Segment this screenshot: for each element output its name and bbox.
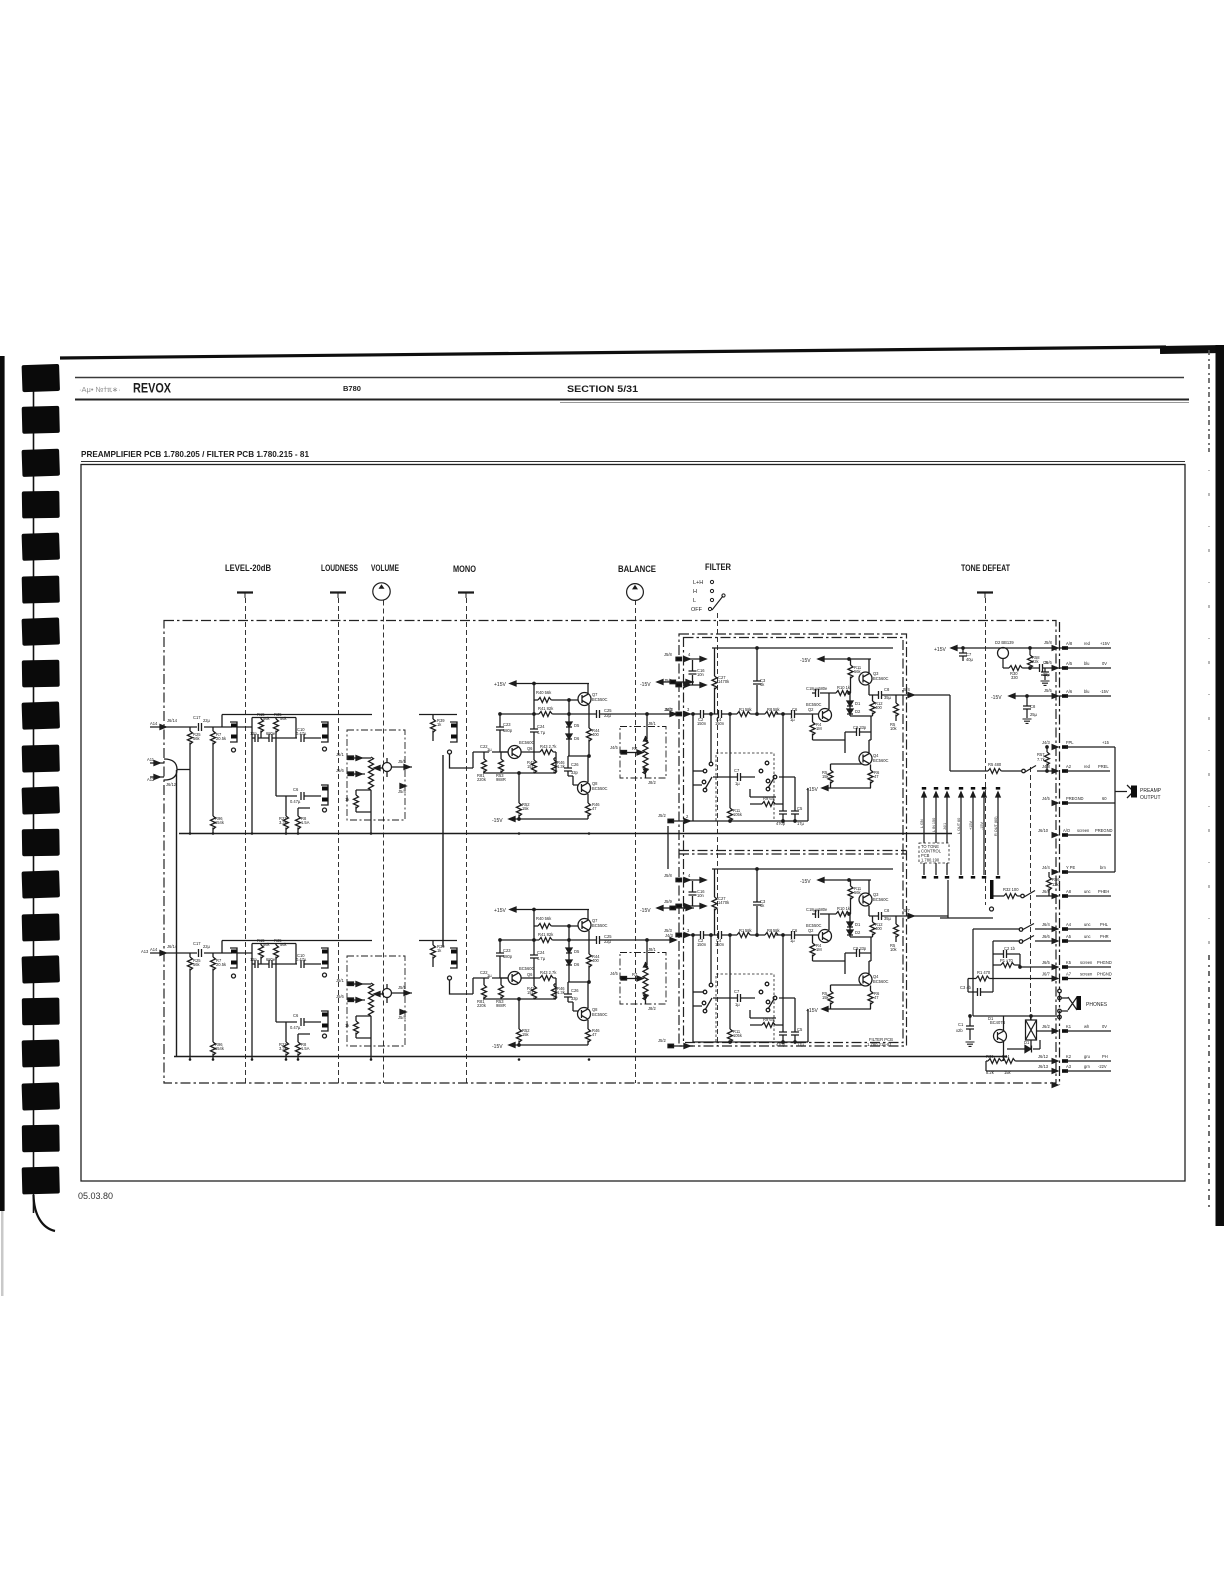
- svg-text:screen: screen: [1080, 960, 1093, 965]
- svg-text:PHGND: PHGND: [1097, 960, 1112, 965]
- svg-text:OFF: OFF: [691, 607, 703, 613]
- svg-text:A/5: A/5: [1066, 661, 1073, 666]
- svg-text:+15V: +15V: [494, 682, 506, 688]
- svg-text:150n: 150n: [697, 721, 707, 726]
- svg-text:MONO: MONO: [453, 564, 476, 575]
- svg-text:-15V: -15V: [991, 695, 1002, 701]
- svg-text:SECTION 5/31: SECTION 5/31: [567, 384, 638, 394]
- svg-text:PHR: PHR: [1100, 934, 1109, 939]
- svg-text:A12: A12: [147, 777, 155, 782]
- svg-text:R32 100: R32 100: [1003, 887, 1019, 892]
- svg-text:-15V: -15V: [492, 818, 503, 824]
- svg-text:+15V: +15V: [1100, 641, 1110, 646]
- svg-text:35µ: 35µ: [884, 695, 892, 700]
- svg-text:LOUDNESS: LOUDNESS: [321, 563, 358, 574]
- svg-text:D2: D2: [855, 709, 861, 714]
- svg-text:BC550C: BC550C: [592, 697, 608, 702]
- svg-text:C7: C7: [734, 768, 740, 773]
- svg-text:red: red: [1084, 641, 1091, 646]
- svg-text:BC560C: BC560C: [873, 676, 889, 681]
- svg-text:R10 1k: R10 1k: [837, 685, 851, 690]
- svg-text:J5/8: J5/8: [664, 652, 672, 657]
- svg-text:A4: A4: [1066, 922, 1072, 927]
- svg-text:Q6: Q6: [527, 746, 533, 751]
- svg-text:BC560C: BC560C: [873, 758, 889, 763]
- svg-text:A3: A3: [1066, 1064, 1072, 1069]
- svg-text:A/O: A/O: [1063, 828, 1070, 833]
- svg-text:L: L: [693, 598, 696, 604]
- svg-text:+15V: +15V: [934, 647, 946, 653]
- svg-text:+15: +15: [1102, 740, 1110, 745]
- svg-text:blu: blu: [1084, 661, 1089, 666]
- svg-text:4: 4: [688, 652, 691, 657]
- svg-text:PREGND: PREGND: [1095, 828, 1113, 833]
- svg-text:grn: grn: [1084, 1064, 1091, 1069]
- svg-text:56k: 56k: [280, 716, 288, 721]
- svg-text:J5/2: J5/2: [658, 813, 666, 818]
- svg-text:C5: C5: [797, 806, 803, 811]
- svg-text:brn: brn: [1100, 865, 1107, 870]
- svg-text:1µ: 1µ: [487, 747, 492, 752]
- svg-text:R5 480: R5 480: [988, 762, 1002, 767]
- svg-text:0.47µ: 0.47µ: [290, 799, 301, 804]
- svg-text:58k: 58k: [745, 707, 753, 712]
- svg-text:J8/2: J8/2: [648, 780, 656, 785]
- svg-text:22µ: 22µ: [203, 718, 211, 723]
- svg-text:J5/9: J5/9: [664, 678, 672, 683]
- svg-text:R40 56k: R40 56k: [536, 690, 552, 695]
- svg-text:J4/3: J4/3: [1042, 740, 1050, 745]
- svg-text:·Аμ• №ϯℼ∗·: ·Аμ• №ϯℼ∗·: [79, 385, 121, 394]
- svg-text:400: 400: [875, 705, 883, 710]
- svg-text:R41 82k: R41 82k: [538, 706, 554, 711]
- svg-text:47: 47: [592, 806, 597, 811]
- svg-text:K5: K5: [1066, 960, 1072, 965]
- svg-text:-15V: -15V: [980, 822, 984, 830]
- svg-text:D1: D1: [855, 701, 861, 706]
- svg-text:C6: C6: [792, 707, 798, 712]
- svg-text:D1: D1: [988, 1016, 994, 1021]
- svg-text:J6/6: J6/6: [1042, 934, 1050, 939]
- svg-text:C8: C8: [884, 687, 890, 692]
- svg-text:J6/5: J6/5: [1042, 960, 1050, 965]
- svg-text:PHEH: PHEH: [1098, 889, 1109, 894]
- svg-text:R7: R7: [632, 746, 638, 751]
- svg-text:330: 330: [1011, 675, 1019, 680]
- svg-text:D6: D6: [574, 736, 580, 741]
- svg-text:58k: 58k: [773, 707, 781, 712]
- svg-text:680e: 680e: [266, 731, 276, 736]
- svg-text:gru: gru: [1084, 1054, 1090, 1059]
- svg-text:33p: 33p: [571, 770, 579, 775]
- svg-text:L OUT 60: L OUT 60: [957, 818, 961, 834]
- svg-text:J4/4: J4/4: [1042, 865, 1050, 870]
- svg-text:PREGND: PREGND: [1066, 796, 1084, 801]
- svg-text:J5/5: J5/5: [1044, 688, 1052, 693]
- svg-text:PREL: PREL: [1098, 764, 1109, 769]
- svg-text:A7: A7: [1066, 972, 1072, 977]
- svg-text:K1: K1: [1066, 1024, 1072, 1029]
- svg-text:40µ: 40µ: [966, 657, 974, 662]
- svg-text:R34: R34: [1002, 1054, 1010, 1059]
- svg-text:A11: A11: [147, 757, 155, 762]
- svg-text:wh: wh: [1084, 1024, 1090, 1029]
- svg-text:60: 60: [1102, 796, 1107, 801]
- svg-text:VOLUME: VOLUME: [371, 563, 399, 574]
- svg-text:R36: R36: [986, 1054, 994, 1059]
- svg-text:J6/13: J6/13: [1038, 1064, 1049, 1069]
- svg-text:PHGND: PHGND: [1097, 972, 1112, 977]
- svg-text:R OUT (60): R OUT (60): [994, 816, 998, 836]
- svg-text:red: red: [1084, 764, 1091, 769]
- svg-text:PREAMPLIFIER PCB 1.780.205 / F: PREAMPLIFIER PCB 1.780.205 / FILTER PCB …: [81, 449, 309, 459]
- svg-text:C26: C26: [571, 762, 579, 767]
- svg-text:C17: C17: [193, 715, 201, 720]
- svg-text:1.5A: 1.5A: [301, 820, 310, 825]
- svg-text:-15V: -15V: [800, 658, 811, 664]
- svg-text:C2 1b: C2 1b: [1004, 946, 1016, 951]
- svg-text:J5/6: J5/6: [336, 768, 344, 773]
- svg-text:C23: C23: [503, 722, 511, 727]
- svg-text:4.7µ: 4.7µ: [537, 730, 546, 735]
- svg-text:J5/6: J5/6: [1044, 660, 1052, 665]
- svg-text:L IN 150: L IN 150: [932, 818, 936, 832]
- svg-text:56k: 56k: [193, 736, 201, 741]
- svg-text:A8: A8: [1066, 889, 1072, 894]
- svg-text:J4/5: J4/5: [610, 745, 618, 750]
- svg-text:FPL: FPL: [1066, 740, 1074, 745]
- svg-text:J5/7: J5/7: [902, 908, 910, 913]
- svg-text:1k: 1k: [345, 797, 350, 802]
- svg-text:25µ: 25µ: [1030, 712, 1038, 717]
- svg-text:C24: C24: [537, 724, 545, 729]
- svg-text:J5/4: J5/4: [902, 687, 910, 692]
- svg-text:L+H: L+H: [693, 580, 703, 586]
- svg-text:OUTPUT: OUTPUT: [1140, 795, 1161, 801]
- svg-text:unc: unc: [1084, 934, 1091, 939]
- svg-text:TONE DEFEAT: TONE DEFEAT: [961, 563, 1010, 574]
- svg-text:screen: screen: [1080, 972, 1093, 977]
- svg-text:J6/12: J6/12: [166, 782, 177, 787]
- svg-text:J6/2: J6/2: [1042, 1024, 1050, 1029]
- svg-text:J4/5: J4/5: [1042, 796, 1050, 801]
- svg-text:0V: 0V: [1102, 661, 1107, 666]
- svg-text:1µ: 1µ: [790, 717, 795, 722]
- svg-text:150n: 150n: [715, 721, 725, 726]
- svg-text:J5/8: J5/8: [1044, 640, 1052, 645]
- svg-text:0.47µ: 0.47µ: [296, 731, 307, 736]
- svg-text:PH: PH: [1102, 1054, 1108, 1059]
- svg-text:154k: 154k: [215, 820, 225, 825]
- svg-text:C3 4b: C3 4b: [960, 985, 972, 990]
- svg-text:-15V: -15V: [1100, 689, 1109, 694]
- svg-text:3.3k: 3.3k: [279, 820, 288, 825]
- svg-text:J5/1: J5/1: [336, 752, 344, 757]
- svg-text:-15V: -15V: [640, 682, 651, 688]
- svg-text:BC560C: BC560C: [519, 740, 535, 745]
- svg-text:A/8: A/8: [1066, 641, 1073, 646]
- svg-text:1µ: 1µ: [735, 781, 740, 786]
- svg-text:PHONES: PHONES: [1086, 1002, 1108, 1008]
- svg-text:FILTER: FILTER: [705, 562, 731, 573]
- svg-text:+15V: +15V: [969, 821, 973, 830]
- svg-text:A/6: A/6: [1066, 689, 1073, 694]
- svg-text:1.780.215-81: 1.780.215-81: [867, 1042, 892, 1047]
- svg-text:C9 33p: C9 33p: [853, 725, 867, 730]
- svg-text:A5: A5: [1066, 934, 1072, 939]
- svg-text:12k: 12k: [1052, 882, 1060, 887]
- svg-text:J5/4: J5/4: [398, 789, 406, 794]
- svg-text:J5/5: J5/5: [398, 759, 406, 764]
- svg-text:J6/4: J6/4: [1042, 922, 1050, 927]
- svg-text:H: H: [693, 589, 697, 595]
- svg-text:K2: K2: [1066, 1054, 1072, 1059]
- svg-text:220k: 220k: [477, 777, 487, 782]
- svg-text:15k: 15k: [822, 774, 830, 779]
- svg-text:D2 BB139: D2 BB139: [995, 640, 1014, 645]
- svg-text:20.5k: 20.5k: [216, 736, 227, 741]
- svg-text:BALANCE: BALANCE: [618, 564, 656, 575]
- svg-text:J8/1: J8/1: [648, 721, 656, 726]
- svg-text:1470k: 1470k: [718, 679, 730, 684]
- svg-text:Y PE: Y PE: [1066, 865, 1076, 870]
- svg-text:10k: 10k: [890, 726, 898, 731]
- svg-text:J5/3: J5/3: [664, 707, 672, 712]
- svg-text:J5/2: J5/2: [658, 1038, 666, 1043]
- svg-text:-22V: -22V: [1098, 1064, 1107, 1069]
- svg-text:R43 2.7k: R43 2.7k: [540, 744, 557, 749]
- svg-text:R1 470: R1 470: [977, 970, 991, 975]
- svg-text:17µ: 17µ: [797, 821, 805, 826]
- svg-text:A2: A2: [1066, 764, 1072, 769]
- svg-text:blu: blu: [1084, 689, 1089, 694]
- svg-text:C1: C1: [958, 1022, 964, 1027]
- svg-text:3: 3: [687, 707, 690, 712]
- svg-text:47: 47: [874, 774, 879, 779]
- svg-text:1.780.190: 1.780.190: [921, 858, 940, 863]
- svg-text:A13: A13: [141, 949, 149, 954]
- svg-text:J6/14: J6/14: [167, 718, 178, 723]
- svg-text:15k: 15k: [522, 806, 530, 811]
- svg-text:A14: A14: [150, 721, 158, 726]
- svg-text:P1 x70: P1 x70: [1000, 958, 1013, 963]
- svg-text:unc: unc: [1084, 889, 1091, 894]
- svg-text:400: 400: [592, 732, 600, 737]
- svg-text:J6/12: J6/12: [1038, 1054, 1049, 1059]
- svg-text:REVOX: REVOX: [133, 380, 172, 396]
- svg-text:1.3k: 1.3k: [557, 764, 566, 769]
- svg-text:-15V: -15V: [640, 908, 651, 914]
- svg-text:105k: 105k: [733, 812, 743, 817]
- svg-text:Q2: Q2: [808, 707, 814, 712]
- svg-text:unc: unc: [1084, 922, 1091, 927]
- svg-text:1M: 1M: [816, 726, 822, 731]
- svg-text:PHL: PHL: [1100, 922, 1109, 927]
- svg-text:0V: 0V: [1102, 1024, 1107, 1029]
- svg-text:56k: 56k: [854, 669, 862, 674]
- svg-text:12n: 12n: [250, 731, 258, 736]
- svg-text:22µ: 22µ: [604, 713, 612, 718]
- svg-text:BC550C: BC550C: [592, 786, 608, 791]
- svg-text:J4/1: J4/1: [943, 823, 947, 830]
- svg-text:D5: D5: [574, 723, 580, 728]
- svg-text:B780: B780: [343, 384, 361, 393]
- svg-text:15k: 15k: [1004, 1070, 1012, 1075]
- svg-text:680p: 680p: [503, 728, 513, 733]
- svg-text:C6: C6: [293, 787, 299, 792]
- svg-text:screen: screen: [1077, 828, 1090, 833]
- svg-text:L GN: L GN: [920, 819, 924, 828]
- svg-text:J6/10: J6/10: [1038, 828, 1049, 833]
- svg-text:25µ: 25µ: [1043, 672, 1051, 677]
- svg-text:151: 151: [527, 764, 535, 769]
- svg-text:J4/8: J4/8: [1042, 764, 1050, 769]
- svg-text:05.03.80: 05.03.80: [78, 1191, 113, 1201]
- svg-text:x2b: x2b: [956, 1028, 963, 1033]
- svg-text:7.7k: 7.7k: [1037, 757, 1046, 762]
- svg-text:988R: 988R: [496, 777, 506, 782]
- svg-text:C8: C8: [1030, 704, 1036, 709]
- svg-text:2: 2: [686, 814, 689, 819]
- svg-text:R9 64: R9 64: [763, 796, 775, 801]
- svg-text:56k: 56k: [263, 716, 271, 721]
- svg-text:J6/7: J6/7: [1042, 972, 1050, 977]
- svg-text:8.2k: 8.2k: [986, 1070, 995, 1075]
- svg-text:D1: D1: [1024, 1040, 1030, 1045]
- svg-text:C18µµ680e: C18µµ680e: [806, 686, 828, 691]
- svg-text:PREAMP: PREAMP: [1140, 788, 1162, 794]
- svg-text:22k: 22k: [1032, 659, 1040, 664]
- svg-text:10n: 10n: [697, 672, 705, 677]
- svg-text:LEVEL-20dB: LEVEL-20dB: [225, 563, 271, 574]
